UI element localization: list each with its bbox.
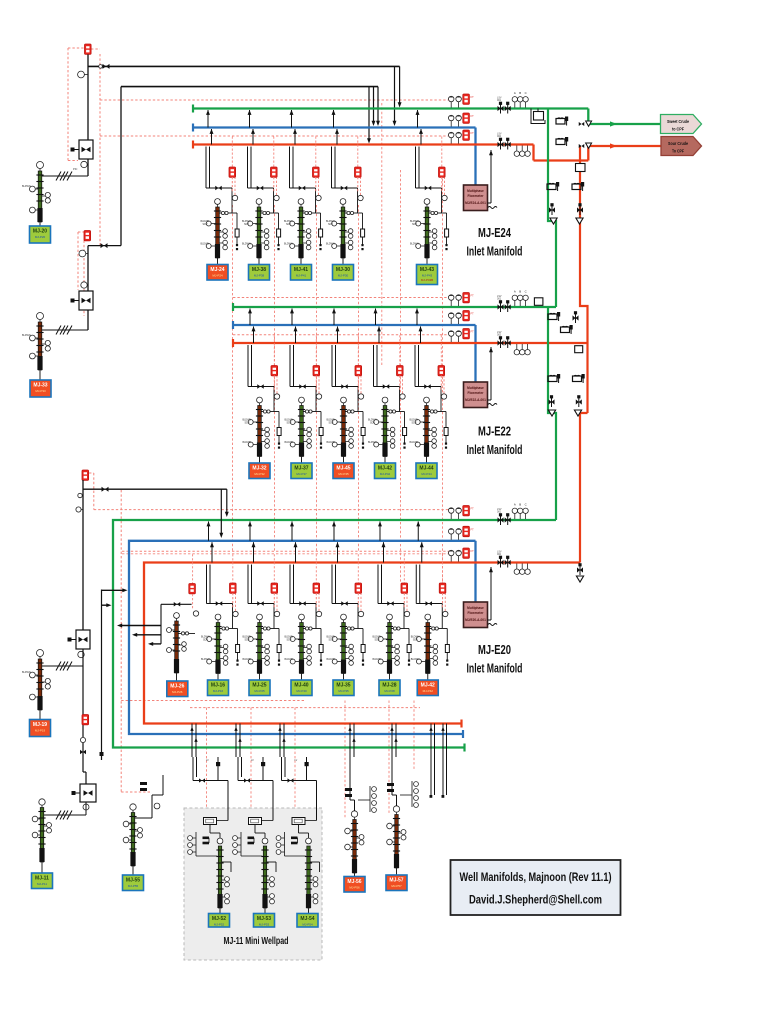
- MJ-E24 header instruments: [448, 91, 530, 156]
- svg-text:MJ-26: MJ-26: [170, 683, 184, 689]
- alarm tag MJ-42: [439, 554, 448, 617]
- svg-text:B: B: [519, 503, 521, 507]
- riser valves and meters (E22 zone): [534, 298, 584, 416]
- MJ-E20 red header frame: [144, 563, 580, 724]
- well cluster MJ-42: [411, 521, 450, 680]
- svg-text:Sweet Crude: Sweet Crude: [667, 119, 689, 125]
- svg-text:MJ-16: MJ-16: [211, 682, 225, 688]
- svg-text:To CPF: To CPF: [672, 148, 684, 154]
- black trunk line 2: [121, 87, 380, 144]
- wellhead MJ-19: [22, 650, 50, 720]
- well cluster MJ-52: [188, 757, 231, 913]
- svg-text:MJ-24: MJ-24: [210, 267, 224, 273]
- svg-text:Inlet Manifold: Inlet Manifold: [467, 245, 523, 259]
- svg-text:to CPF: to CPF: [672, 126, 684, 132]
- alarm tag MJ-32: [271, 335, 280, 399]
- svg-text:MJ-41: MJ-41: [294, 267, 308, 273]
- label MJ-38: [249, 265, 270, 281]
- svg-text:MJ-44: MJ-44: [419, 465, 433, 471]
- alarm tag MJ-43: [439, 137, 448, 201]
- MJ-E24 red header: [193, 141, 588, 161]
- svg-text:MJ-P56: MJ-P56: [349, 885, 360, 889]
- svg-text:BLDWN: BLDWN: [22, 185, 31, 188]
- svg-text:MJ-P52: MJ-P52: [214, 922, 225, 926]
- label MJ-20: [30, 226, 51, 243]
- label MJ-19: [30, 720, 51, 737]
- MJ-E22 blue header: [233, 321, 476, 382]
- svg-text:MJ-P37: MJ-P37: [296, 472, 307, 476]
- feeder pipe MJ-19: [42, 480, 90, 671]
- svg-text:BLDWN: BLDWN: [22, 334, 31, 337]
- svg-text:SDV: SDV: [375, 639, 380, 642]
- wellhead MJ-33: [22, 313, 50, 381]
- MJ-E24 blue header: [193, 124, 476, 186]
- svg-text:FT: FT: [471, 549, 475, 553]
- svg-text:SDV: SDV: [245, 639, 250, 642]
- alarm tag MJ-26: [189, 554, 199, 616]
- label MJ-41: [291, 265, 312, 281]
- well cluster MJ-35: [327, 521, 366, 680]
- svg-text:MJ-53: MJ-53: [257, 916, 271, 922]
- svg-text:MJ-P28: MJ-P28: [384, 689, 395, 693]
- MJ-E20 header instruments: [448, 503, 530, 575]
- svg-text:FT: FT: [471, 507, 475, 511]
- riser valve (E20 zone): [576, 563, 583, 582]
- svg-text:Well Manifolds, Majnoon (Rev 1: Well Manifolds, Majnoon (Rev 11.1): [460, 870, 612, 884]
- svg-text:MJ-52: MJ-52: [212, 916, 226, 922]
- svg-text:002: 002: [497, 553, 502, 556]
- svg-text:MJ-11 Mini Wellpad: MJ-11 Mini Wellpad: [224, 935, 289, 947]
- svg-text:A: A: [514, 503, 516, 507]
- banner sour crude to CPF: [661, 137, 702, 156]
- svg-text:A: A: [514, 91, 516, 95]
- svg-text:MJ-11: MJ-11: [35, 875, 49, 881]
- svg-text:SDV: SDV: [328, 223, 333, 226]
- svg-text:MJ-P19: MJ-P19: [35, 728, 46, 732]
- svg-text:MJ-P43B: MJ-P43B: [421, 278, 433, 282]
- svg-text:B: B: [519, 91, 521, 95]
- label MJ-35: [333, 680, 354, 696]
- svg-text:BLDWN: BLDWN: [285, 441, 294, 444]
- svg-text:MJ-P32: MJ-P32: [254, 472, 265, 476]
- svg-text:MJ-P38: MJ-P38: [254, 273, 265, 277]
- svg-text:001: 001: [497, 99, 502, 102]
- well cluster MJ-43: [410, 110, 449, 265]
- svg-text:MJ-P45: MJ-P45: [338, 472, 349, 476]
- MJ-E22 red header: [233, 339, 588, 347]
- svg-text:B: B: [519, 290, 521, 294]
- svg-text:FT: FT: [471, 294, 475, 298]
- feeder pipe MJ-20: [42, 55, 93, 181]
- svg-text:MJ-P26: MJ-P26: [172, 690, 183, 694]
- label MJ-45: [333, 463, 354, 479]
- svg-text:Inlet Manifold: Inlet Manifold: [467, 443, 523, 457]
- banner sweet crude to CPF: [661, 115, 702, 134]
- MJ-E24 green header: [193, 105, 588, 113]
- svg-text:BLDWN: BLDWN: [285, 658, 294, 661]
- svg-text:MJ-28: MJ-28: [382, 682, 396, 688]
- feeder pipe MJ-33: [42, 87, 121, 335]
- alarm tag MJ-25: [271, 554, 280, 617]
- svg-text:LV: LV: [251, 759, 254, 762]
- svg-text:SDV: SDV: [413, 639, 418, 642]
- svg-text:MJ-37: MJ-37: [294, 465, 308, 471]
- svg-text:MJ/E24-A-001: MJ/E24-A-001: [465, 201, 486, 205]
- svg-text:Inlet Manifold: Inlet Manifold: [467, 662, 523, 676]
- svg-text:David.J.Shepherd@Shell.com: David.J.Shepherd@Shell.com: [469, 893, 602, 907]
- svg-text:BLDWN: BLDWN: [410, 441, 419, 444]
- svg-text:MJ-P30: MJ-P30: [338, 273, 349, 277]
- svg-text:MJ-E22: MJ-E22: [478, 425, 511, 439]
- svg-text:BLDWN: BLDWN: [411, 658, 420, 661]
- multiphase flowmeter MJ/E22-A-001: [464, 347, 498, 408]
- label MJ-55: [123, 875, 144, 891]
- multiphase flowmeter MJ/E20-A-001: [464, 567, 498, 628]
- green riser to sweet crude: [548, 109, 661, 521]
- svg-text:BLDWN: BLDWN: [327, 658, 336, 661]
- return line connectors: [190, 724, 446, 798]
- svg-text:A: A: [514, 290, 516, 294]
- label MJ-43: [417, 265, 438, 285]
- MJ-E20 green header frame: [113, 520, 556, 748]
- MJ-E22 green header: [233, 303, 556, 311]
- svg-text:BLDWN: BLDWN: [242, 243, 251, 246]
- svg-text:SDV: SDV: [329, 422, 334, 425]
- svg-text:MJ-P24: MJ-P24: [212, 273, 223, 277]
- svg-text:MJ-56: MJ-56: [347, 879, 361, 885]
- label MJ-57: [386, 875, 407, 891]
- svg-text:Multiphase: Multiphase: [467, 606, 484, 610]
- label MJ-54: [297, 914, 318, 928]
- svg-text:BLDWN: BLDWN: [243, 658, 252, 661]
- svg-text:SDV: SDV: [203, 639, 208, 642]
- svg-text:C: C: [525, 91, 527, 95]
- svg-text:MJ/E20-A-001: MJ/E20-A-001: [465, 618, 486, 622]
- svg-text:LV: LV: [206, 759, 209, 762]
- feeder connection lines to E20 frames: [100, 588, 192, 760]
- label MJ-32: [249, 463, 270, 479]
- label MJ-28: [379, 680, 400, 696]
- label MJ-30: [333, 265, 354, 281]
- svg-text:MJ-45: MJ-45: [336, 465, 350, 471]
- svg-text:PIC: PIC: [73, 167, 77, 171]
- svg-text:FT: FT: [471, 312, 475, 316]
- label MJ-16: [208, 680, 229, 696]
- alarm tag MJ-28: [401, 554, 410, 617]
- well cluster MJ-53: [233, 757, 276, 913]
- wellhead MJ-55: [123, 804, 142, 875]
- label MJ-33: [30, 380, 51, 397]
- svg-text:SDV: SDV: [286, 223, 291, 226]
- svg-text:MJ-P44: MJ-P44: [421, 472, 432, 476]
- svg-text:MJ-43: MJ-43: [420, 267, 434, 273]
- svg-text:BLDWN: BLDWN: [243, 441, 252, 444]
- label MJ-44: [416, 463, 437, 479]
- svg-text:SDV: SDV: [412, 223, 417, 226]
- alarm tag bottom-left: [82, 715, 89, 725]
- svg-text:MJ-P25: MJ-P25: [254, 689, 265, 693]
- svg-text:Flowmeter: Flowmeter: [468, 194, 485, 198]
- svg-text:MJ-30: MJ-30: [336, 267, 350, 273]
- svg-text:MJ-25: MJ-25: [252, 682, 266, 688]
- svg-text:SDV: SDV: [412, 422, 417, 425]
- multiphase flowmeter MJ/E24-A-001: [464, 150, 498, 211]
- svg-text:MJ-42: MJ-42: [421, 682, 435, 688]
- well cluster MJ-45: [327, 308, 366, 463]
- svg-text:MJ-54: MJ-54: [300, 916, 314, 922]
- alarm tag MJ-24: [229, 137, 238, 201]
- svg-text:FT: FT: [471, 330, 475, 334]
- alarm tag MJ-30: [355, 137, 364, 201]
- MJ-57 instrument chain: [411, 781, 413, 807]
- svg-text:FT: FT: [471, 527, 475, 531]
- svg-text:SDV: SDV: [244, 223, 249, 226]
- label MJ-42: [417, 680, 438, 696]
- svg-text:SDV: SDV: [329, 639, 334, 642]
- svg-text:001: 001: [497, 511, 502, 514]
- svg-text:BLDWN: BLDWN: [326, 243, 335, 246]
- svg-text:MJ-P20: MJ-P20: [35, 235, 46, 239]
- label MJ-26: [167, 681, 188, 697]
- svg-text:MJ-35: MJ-35: [336, 682, 350, 688]
- label MJ-40: [291, 680, 312, 696]
- svg-text:002: 002: [497, 334, 502, 337]
- alarm tag MJ-38: [271, 137, 280, 201]
- well cluster MJ-38: [242, 110, 281, 265]
- svg-text:SDV: SDV: [203, 223, 208, 226]
- wellhead MJ-56: [345, 811, 364, 877]
- svg-text:BLDWN: BLDWN: [201, 243, 210, 246]
- well cluster MJ-37: [285, 308, 324, 463]
- svg-text:LV: LV: [295, 759, 298, 762]
- svg-text:MJ-P43: MJ-P43: [422, 273, 433, 277]
- well cluster MJ-54: [276, 757, 319, 913]
- svg-text:BLDWN: BLDWN: [22, 671, 31, 674]
- svg-text:MJ-P35: MJ-P35: [338, 689, 349, 693]
- MJ-E22 header instruments: [448, 290, 530, 355]
- label MJ-11: [32, 873, 53, 889]
- label MJ-52: [209, 914, 230, 928]
- svg-text:Flowmeter: Flowmeter: [468, 391, 485, 395]
- instrument signal dashed lines: [68, 48, 450, 828]
- svg-text:MJ-P11: MJ-P11: [37, 882, 47, 886]
- alarm tag MJ-40: [313, 554, 322, 617]
- svg-text:MJ-P53: MJ-P53: [259, 922, 270, 926]
- MJ-11 mini wellpad area: [184, 808, 322, 960]
- feeder line into E20 headers: [76, 487, 229, 538]
- svg-text:MJ-32: MJ-32: [252, 465, 266, 471]
- well cluster MJ-40: [285, 521, 324, 680]
- label MJ-53: [254, 914, 275, 928]
- alarm tag mid-left: [84, 231, 91, 241]
- svg-text:MJ-P40: MJ-P40: [296, 689, 307, 693]
- alarm tag MJ-42: [397, 335, 406, 399]
- svg-text:BLDWN: BLDWN: [327, 441, 336, 444]
- well cluster MJ-25: [243, 521, 282, 680]
- svg-text:MJ-40: MJ-40: [294, 682, 308, 688]
- alarm tag left (E20): [82, 470, 89, 480]
- wellhead MJ-11: [32, 799, 51, 873]
- MJ-55 riser staircase: [135, 817, 152, 819]
- svg-text:MJ-55: MJ-55: [126, 877, 140, 883]
- svg-text:C: C: [525, 503, 527, 507]
- svg-text:MJ-P55: MJ-P55: [128, 884, 139, 888]
- well cluster MJ-28: [373, 521, 412, 680]
- svg-text:MJ-P41: MJ-P41: [296, 273, 307, 277]
- svg-text:MJ-E24: MJ-E24: [478, 226, 511, 240]
- svg-text:MJ-E20: MJ-E20: [478, 643, 511, 657]
- label MJ-24: [207, 265, 228, 281]
- wellhead MJ-57: [387, 806, 406, 875]
- svg-text:MJ-20: MJ-20: [33, 228, 47, 234]
- svg-text:SDV: SDV: [370, 422, 375, 425]
- svg-text:MJ-P42: MJ-P42: [423, 689, 434, 693]
- svg-text:BLDWN: BLDWN: [410, 243, 419, 246]
- well cluster MJ-32: [243, 308, 282, 463]
- svg-text:Multiphase: Multiphase: [467, 386, 484, 390]
- svg-text:MJ-38: MJ-38: [252, 267, 266, 273]
- svg-text:MJ-P16: MJ-P16: [213, 689, 224, 693]
- wellhead MJ-26: [167, 613, 196, 681]
- svg-text:FT: FT: [471, 95, 475, 99]
- label MJ-56: [344, 877, 365, 893]
- MJ-11 feeder assembly: [44, 666, 96, 820]
- svg-text:MJ-19: MJ-19: [33, 722, 47, 728]
- svg-text:MJ-P42: MJ-P42: [380, 472, 391, 476]
- MJ-57 riser links: [391, 757, 393, 795]
- alarm tag MJ-16: [230, 554, 239, 617]
- alarm tag MJ-41: [313, 137, 322, 201]
- label MJ-42: [375, 463, 396, 479]
- alarm tag top-left: [85, 44, 92, 54]
- well cluster MJ-24: [201, 110, 240, 265]
- svg-text:MJ-57: MJ-57: [389, 877, 403, 883]
- wellhead MJ-20: [22, 162, 50, 227]
- MJ-56 instrument chain: [369, 786, 371, 812]
- label MJ-37: [291, 463, 312, 479]
- alarm tag MJ-35: [355, 554, 364, 617]
- svg-text:002: 002: [497, 135, 502, 138]
- svg-text:BLDWN: BLDWN: [373, 658, 382, 661]
- alarm tag MJ-45: [355, 335, 364, 399]
- label MJ-25: [249, 680, 270, 696]
- svg-text:SDV: SDV: [287, 639, 292, 642]
- svg-text:MJ-42: MJ-42: [378, 465, 392, 471]
- svg-text:MJ-33: MJ-33: [33, 382, 47, 388]
- svg-text:BLDWN: BLDWN: [284, 243, 293, 246]
- svg-text:BLDWN: BLDWN: [201, 658, 210, 661]
- svg-text:SDV: SDV: [287, 422, 292, 425]
- svg-text:Flowmeter: Flowmeter: [468, 611, 485, 615]
- title box: [451, 860, 621, 915]
- svg-text:SDV: SDV: [245, 422, 250, 425]
- svg-text:MJ-P57: MJ-P57: [391, 884, 402, 888]
- svg-text:Sour Crude: Sour Crude: [668, 141, 688, 147]
- svg-text:001: 001: [497, 298, 502, 301]
- MJ-56 riser links: [349, 757, 351, 800]
- MJ-E20 blue header frame: [129, 541, 476, 734]
- well cluster MJ-44: [410, 308, 449, 463]
- well cluster MJ-30: [326, 110, 365, 265]
- alarm tag MJ-37: [313, 335, 322, 399]
- black trunk line 1: [88, 64, 402, 126]
- red riser to sour crude: [580, 143, 661, 562]
- svg-text:MJ-P33: MJ-P33: [35, 389, 46, 393]
- svg-text:Multiphase: Multiphase: [467, 189, 484, 193]
- well cluster MJ-16: [201, 521, 240, 680]
- well cluster MJ-41: [284, 110, 323, 265]
- svg-text:MJ-P54: MJ-P54: [302, 922, 313, 926]
- svg-text:FT: FT: [471, 114, 475, 118]
- alarm tag MJ-44: [438, 335, 447, 399]
- well cluster MJ-42: [368, 308, 407, 463]
- svg-text:MJ/E22-A-001: MJ/E22-A-001: [465, 398, 486, 402]
- riser valves and meters (E24 zone): [531, 109, 592, 225]
- svg-text:FT: FT: [471, 131, 475, 135]
- svg-text:BLDWN: BLDWN: [368, 441, 377, 444]
- svg-text:C: C: [525, 290, 527, 294]
